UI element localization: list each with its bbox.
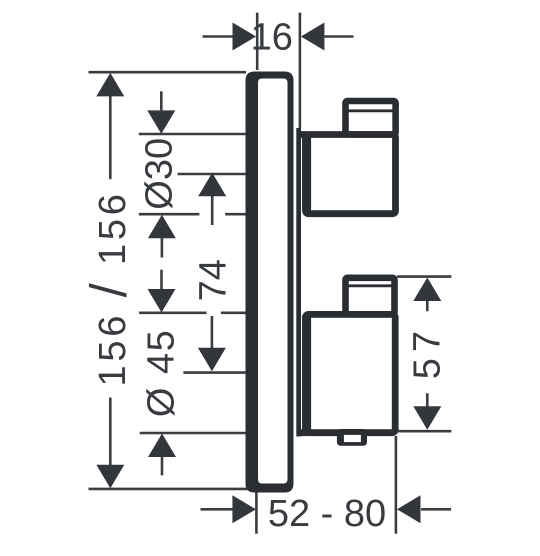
svg-text:74: 74: [193, 259, 235, 301]
svg-text:52 - 80: 52 - 80: [268, 493, 386, 535]
svg-text:Ø 45: Ø 45: [141, 329, 183, 417]
svg-text:156 / 156: 156 / 156: [80, 190, 137, 386]
svg-text:Ø30: Ø30: [139, 138, 181, 210]
svg-text:57: 57: [407, 325, 449, 379]
svg-text:16: 16: [251, 17, 293, 59]
